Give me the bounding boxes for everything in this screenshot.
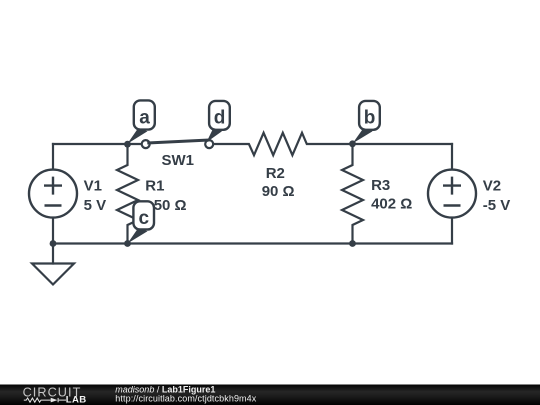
svg-text:5 V: 5 V xyxy=(84,197,107,214)
svg-text:R2: R2 xyxy=(266,165,285,182)
svg-text:V1: V1 xyxy=(84,177,102,194)
svg-text:http://circuitlab.com/ctjdtcbk: http://circuitlab.com/ctjdtcbkh9m4x xyxy=(115,393,256,403)
svg-text:50 Ω: 50 Ω xyxy=(154,197,187,214)
svg-text:V2: V2 xyxy=(483,177,501,194)
svg-text:SW1: SW1 xyxy=(162,152,195,169)
svg-text:c: c xyxy=(139,208,150,229)
svg-text:R3: R3 xyxy=(371,177,390,194)
svg-text:b: b xyxy=(364,108,376,129)
svg-text:a: a xyxy=(139,108,150,129)
svg-text:d: d xyxy=(214,108,226,129)
svg-text:402 Ω: 402 Ω xyxy=(371,196,412,213)
svg-text:90 Ω: 90 Ω xyxy=(262,183,295,200)
svg-text:LAB: LAB xyxy=(66,395,87,405)
svg-text:R1: R1 xyxy=(145,177,164,194)
svg-text:-5 V: -5 V xyxy=(483,197,511,214)
